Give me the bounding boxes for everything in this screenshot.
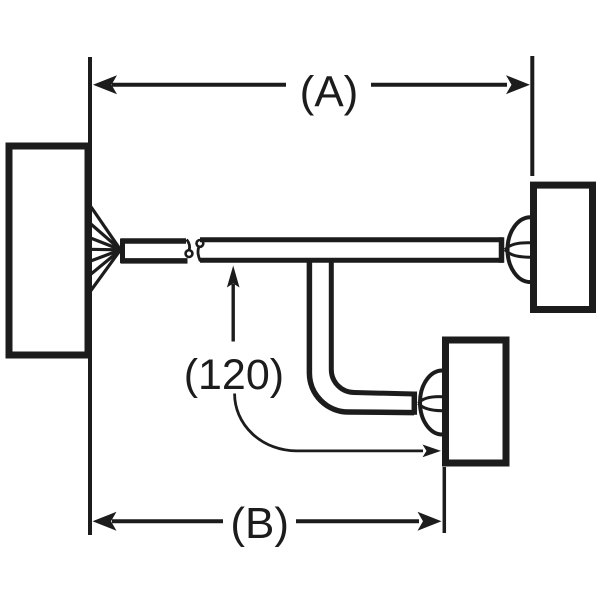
cable end cap right <box>499 237 505 262</box>
dimension line (A) right segment <box>371 83 507 87</box>
dimension line (B) left segment <box>112 519 223 523</box>
callout up-arrowhead to cable <box>227 266 240 288</box>
cable end cap at fan vertex <box>120 239 125 264</box>
extension line right for (A) <box>530 56 534 176</box>
svg-text:(B): (B) <box>230 499 289 548</box>
leader arrowhead <box>423 445 442 458</box>
svg-text:(120): (120) <box>184 351 284 399</box>
svg-text:(A): (A) <box>300 68 359 117</box>
cable segment 2 (after break, main run) <box>200 237 503 242</box>
leader curve from (120) to bottom connector <box>235 394 423 451</box>
wire lens curves right connector <box>505 243 530 250</box>
wire fan-out from left block <box>88 203 121 295</box>
callout arrow shaft <box>231 284 234 342</box>
dimension line (B) right segment <box>296 519 419 523</box>
cable break squiggle right <box>197 240 204 247</box>
dimension arrowhead (B) left <box>93 512 117 531</box>
cable segment 1 (before break) <box>121 238 186 244</box>
dimension arrowhead (A) left <box>93 75 117 94</box>
branch cable inner (right) line <box>331 259 414 394</box>
wire lens curves bottom connector <box>419 397 443 404</box>
wire fan arc into bottom connector <box>420 371 442 435</box>
right connector block <box>534 185 593 309</box>
dimension arrowhead (B) right <box>418 512 442 531</box>
left connector block <box>9 146 88 355</box>
dimension arrowhead (A) right <box>506 75 530 94</box>
wire fan arc into right connector <box>508 217 531 282</box>
extension line right for (B) <box>443 467 447 533</box>
bottom connector block <box>446 340 507 463</box>
branch cable end cap <box>412 392 418 415</box>
extension line left (dimension datum) <box>88 57 92 535</box>
dimension line (A) left segment <box>112 83 286 87</box>
branch cable outer (left) line <box>309 259 414 413</box>
cable break squiggle left <box>187 240 190 250</box>
